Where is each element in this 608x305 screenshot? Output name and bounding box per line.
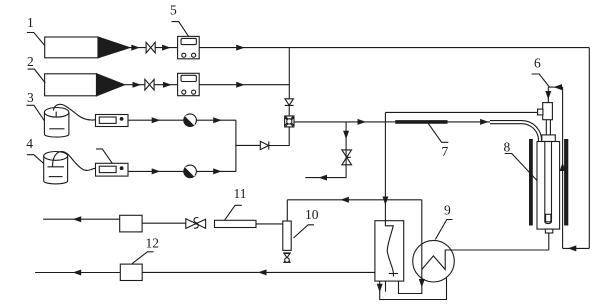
main top line	[199, 47, 589, 49]
MFC1 knob left	[182, 53, 186, 57]
wire pump4 line	[128, 170, 236, 172]
reservoir 3 top ellipse	[44, 108, 69, 118]
wire box to needle valve	[142, 222, 186, 224]
lower line to heated section	[385, 121, 395, 123]
leader line label 12	[132, 252, 153, 264]
drying tube 11	[215, 220, 257, 227]
svg-text:4: 4	[26, 136, 33, 151]
leader line label 10	[294, 225, 315, 238]
wire 4-way valve to reactor feed line	[294, 121, 385, 123]
bottom jog of bypass loop	[563, 247, 590, 249]
reactor bottom stem	[545, 229, 552, 233]
svg-text:12: 12	[146, 236, 160, 251]
trap stub nozzle	[385, 281, 387, 292]
detector box	[120, 215, 142, 232]
meter 10 drain valve	[283, 253, 291, 262]
wire check valve to 4-way valve	[269, 127, 289, 146]
arrow left	[73, 216, 82, 222]
check valve	[260, 141, 269, 149]
svg-text:11: 11	[234, 186, 247, 201]
reactor outlet to condenser	[445, 249, 549, 251]
arrow down on condenser outlet	[419, 279, 425, 288]
label 3	[27, 90, 34, 105]
reservoir 3 liquid level	[49, 128, 64, 130]
pump controller 4 display	[99, 166, 116, 172]
reservoir 3 body	[44, 112, 69, 137]
label 6	[534, 56, 541, 71]
arrow left	[73, 270, 82, 276]
MFC2 knob right	[192, 90, 196, 94]
leader line label 8	[505, 154, 537, 181]
arrow	[213, 168, 222, 174]
valve 6 stem (double line)	[546, 120, 550, 135]
svg-text:7: 7	[442, 144, 449, 159]
pump controller 3 button	[120, 117, 124, 121]
arrow down into trap	[382, 197, 388, 206]
furnace bar right	[564, 139, 568, 226]
liquid line out left	[35, 272, 120, 274]
wire down into valve 6	[547, 87, 549, 103]
arrow down on trap drain	[377, 284, 383, 293]
pump controller 4	[96, 163, 129, 176]
svg-text:5: 5	[170, 3, 177, 18]
svg-text:9: 9	[444, 203, 451, 218]
gas cylinder 1 cone	[98, 37, 130, 58]
pump 4 (half filled circle)	[184, 165, 197, 178]
condenser 9 circle	[413, 240, 455, 282]
arrow down into valve 6	[545, 91, 551, 100]
wire valve to MFC1	[155, 47, 177, 49]
wire pump3 line	[128, 119, 236, 121]
leader line label 11	[225, 205, 242, 220]
arrow	[163, 82, 172, 88]
reservoir 4 liquid level lower	[49, 176, 63, 178]
arrow	[480, 119, 489, 125]
MFC1 display	[181, 38, 196, 44]
wire tube11 to meter 10	[256, 223, 283, 225]
svg-text:2: 2	[27, 54, 34, 69]
cold trap vessel	[375, 221, 404, 281]
arrow on top line	[236, 45, 245, 51]
leader line label 4	[27, 155, 44, 164]
reactor 8 outer tube	[537, 142, 560, 230]
label 12	[146, 236, 160, 251]
MFC2 knob left	[182, 90, 186, 94]
heater 7 (thick bar)	[395, 120, 447, 124]
trap inner tube	[385, 221, 393, 277]
riser beside reactor	[562, 87, 564, 248]
pump controller 3 display	[99, 117, 116, 123]
wire down through condenser	[421, 200, 423, 270]
wire junction down from top line	[288, 48, 290, 99]
arrow	[131, 45, 140, 51]
wire heater to reactor tube	[448, 121, 492, 123]
four-way valve	[285, 116, 294, 127]
arrow down on vent	[343, 131, 349, 140]
leader line to pump controller 4	[96, 149, 112, 163]
trap drain down	[380, 277, 447, 299]
svg-text:8: 8	[504, 140, 511, 155]
wire funnel valve to 4-way valve	[288, 105, 290, 116]
pump controller 3	[96, 115, 129, 127]
wire cylinder2 to valve	[125, 84, 145, 86]
trap inner foot	[389, 273, 398, 275]
sample line out left	[43, 218, 120, 220]
arrow	[358, 119, 367, 125]
wire trap to box 12	[142, 271, 375, 273]
gas cylinder 2	[45, 74, 97, 96]
arrow left on top jog	[554, 84, 563, 90]
label 8	[504, 140, 511, 155]
MFC2 display	[181, 75, 196, 81]
valve (bowtie) row2	[145, 79, 154, 90]
reservoir 4 outlet tube	[53, 152, 96, 171]
flow meter 10	[283, 221, 291, 250]
gas cylinder 1	[45, 37, 98, 58]
svg-text:3: 3	[27, 90, 34, 105]
arrow	[162, 45, 171, 51]
feed tube bend into reactor (double line)	[490, 122, 540, 141]
arrow	[236, 82, 245, 88]
wire riser to heated line	[384, 112, 386, 220]
arrow up on riser	[560, 163, 566, 172]
vent branch down	[305, 122, 346, 178]
mass flow controller 5 (row1)	[178, 36, 200, 58]
svg-text:6: 6	[534, 56, 541, 71]
svg-text:1: 1	[27, 15, 34, 30]
reservoir 4 top ellipse	[44, 152, 68, 161]
label 1	[27, 15, 34, 30]
mass flow controller (row2)	[178, 73, 200, 95]
reservoir 4 liquid level upper	[48, 166, 65, 168]
reservoir 3 outlet tube	[54, 104, 96, 120]
needle valve (with S handle)	[186, 218, 206, 229]
vent valve (vertical bowtie)	[342, 150, 352, 165]
reactor top flange	[542, 135, 556, 142]
right loop line down	[588, 48, 590, 249]
valve 6 body	[543, 103, 553, 120]
wire joining pump lines	[235, 120, 237, 171]
condenser outlet down	[399, 270, 422, 294]
pump 3 (half filled circle)	[184, 114, 197, 127]
arrow	[213, 117, 222, 123]
reservoir 3 dip tube	[55, 112, 57, 117]
label 9	[444, 203, 451, 218]
arrow	[152, 117, 161, 123]
condenser coil W	[422, 250, 549, 270]
valve (funnel) above 4-way	[285, 99, 294, 106]
collector box 12	[120, 264, 142, 280]
leader line label 2	[28, 69, 46, 83]
wire valve to MFC2	[154, 84, 178, 86]
label 5	[170, 3, 177, 18]
wire down to meter 10	[286, 200, 288, 221]
arrow	[133, 82, 142, 88]
catalyst bed	[546, 214, 551, 222]
wire MFC2 to junction	[199, 84, 289, 86]
arrow	[152, 168, 161, 174]
svg-text:10: 10	[305, 207, 319, 222]
reactor outlet down	[548, 233, 550, 250]
label 11	[234, 186, 247, 201]
leader line label 3	[27, 105, 45, 120]
upper line to valve 6	[385, 111, 537, 113]
valve (bowtie) row1	[146, 42, 155, 53]
arrow left	[258, 269, 267, 275]
leader line label 9	[435, 220, 452, 240]
arrow left on vent outlet	[319, 175, 328, 181]
leader line label 6	[532, 74, 550, 87]
pump controller 4 button	[120, 166, 124, 170]
MFC1 knob right	[192, 53, 196, 57]
reactor inner tube	[545, 142, 552, 224]
reservoir 4 body	[44, 156, 68, 184]
label 4	[26, 136, 33, 151]
gas cylinder 2 cone	[97, 74, 125, 96]
leader line label 7	[428, 124, 448, 143]
wire cylinder1 to valve	[130, 47, 147, 49]
line from junction to trap	[287, 199, 422, 201]
furnace bar left	[529, 139, 533, 226]
arrow left on bottom jog	[568, 245, 577, 251]
label 10	[305, 207, 319, 222]
label 2	[27, 54, 34, 69]
arrow left	[340, 197, 349, 203]
valve 6 left port	[538, 109, 543, 115]
label 7	[442, 144, 449, 159]
wire top jog to riser	[548, 86, 562, 88]
leader line label 1	[27, 33, 45, 46]
leader line label 5	[172, 22, 189, 37]
wire to check valve	[236, 144, 260, 146]
